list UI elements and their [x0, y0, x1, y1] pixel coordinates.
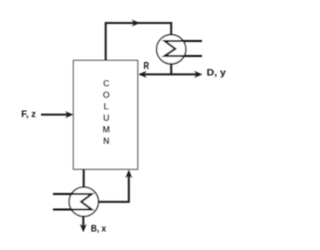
svg-text:D, y: D, y — [207, 68, 227, 79]
svg-text:F, z: F, z — [21, 109, 36, 120]
svg-text:M: M — [102, 125, 110, 135]
svg-text:L: L — [103, 102, 109, 112]
svg-text:B, x: B, x — [91, 223, 107, 234]
svg-text:O: O — [103, 90, 110, 100]
svg-text:N: N — [103, 136, 110, 146]
svg-text:R: R — [144, 61, 150, 72]
svg-text:U: U — [103, 113, 110, 123]
svg-text:C: C — [103, 79, 110, 89]
